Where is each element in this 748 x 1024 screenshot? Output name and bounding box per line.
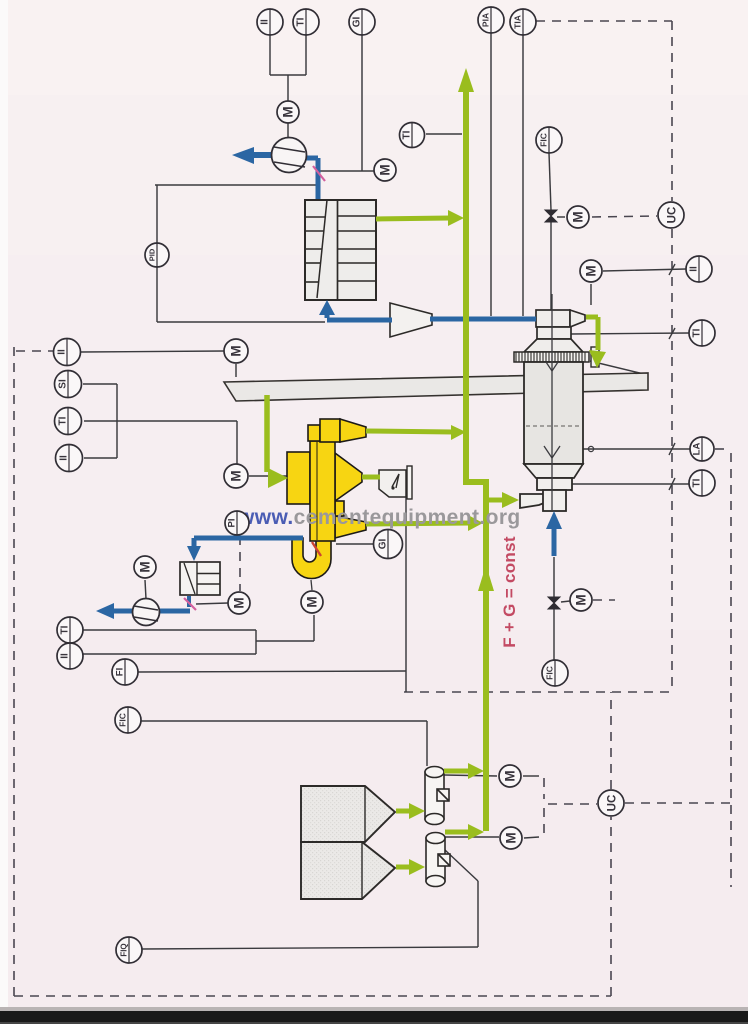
svg-text:II: II bbox=[260, 19, 271, 25]
svg-text:II: II bbox=[57, 349, 68, 355]
svg-text:FI: FI bbox=[115, 668, 126, 676]
svg-text:M: M bbox=[232, 597, 247, 608]
svg-text:TI: TI bbox=[60, 625, 71, 634]
svg-text:M: M bbox=[281, 106, 296, 117]
svg-text:M: M bbox=[574, 594, 589, 605]
svg-text:PI: PI bbox=[227, 519, 238, 528]
svg-text:FIC: FIC bbox=[118, 713, 128, 727]
svg-text:II: II bbox=[689, 266, 700, 272]
svg-text:GI: GI bbox=[378, 539, 389, 550]
svg-text:M: M bbox=[504, 832, 519, 843]
svg-text:UC: UC bbox=[607, 795, 619, 812]
svg-text:M: M bbox=[571, 211, 586, 222]
svg-text:UC: UC bbox=[667, 207, 679, 224]
svg-text:GI: GI bbox=[352, 17, 363, 28]
svg-text:TI: TI bbox=[692, 328, 703, 337]
svg-text:M: M bbox=[503, 770, 518, 781]
svg-text:M: M bbox=[229, 470, 244, 481]
svg-text:II: II bbox=[59, 455, 70, 461]
svg-text:M: M bbox=[378, 164, 393, 175]
svg-text:TIA: TIA bbox=[513, 15, 523, 29]
svg-text:FIQ: FIQ bbox=[120, 943, 129, 956]
svg-text:SI: SI bbox=[58, 379, 69, 389]
svg-text:www.cementequipment.org: www.cementequipment.org bbox=[237, 506, 521, 529]
svg-text:TI: TI bbox=[402, 130, 413, 139]
svg-text:M: M bbox=[584, 265, 599, 276]
svg-text:TI: TI bbox=[692, 478, 703, 487]
svg-text:TI: TI bbox=[58, 416, 69, 425]
svg-text:PID: PID bbox=[148, 248, 157, 261]
svg-text:FIC: FIC bbox=[539, 133, 549, 147]
svg-text:M: M bbox=[305, 596, 320, 607]
svg-text:PIA: PIA bbox=[481, 13, 491, 27]
svg-text:F + G = const: F + G = const bbox=[500, 536, 519, 648]
svg-text:LA: LA bbox=[692, 443, 703, 456]
svg-text:II: II bbox=[60, 653, 71, 659]
svg-text:M: M bbox=[138, 561, 153, 572]
svg-text:M: M bbox=[229, 345, 244, 356]
svg-text:TI: TI bbox=[296, 17, 307, 26]
svg-text:FIC: FIC bbox=[545, 666, 555, 680]
